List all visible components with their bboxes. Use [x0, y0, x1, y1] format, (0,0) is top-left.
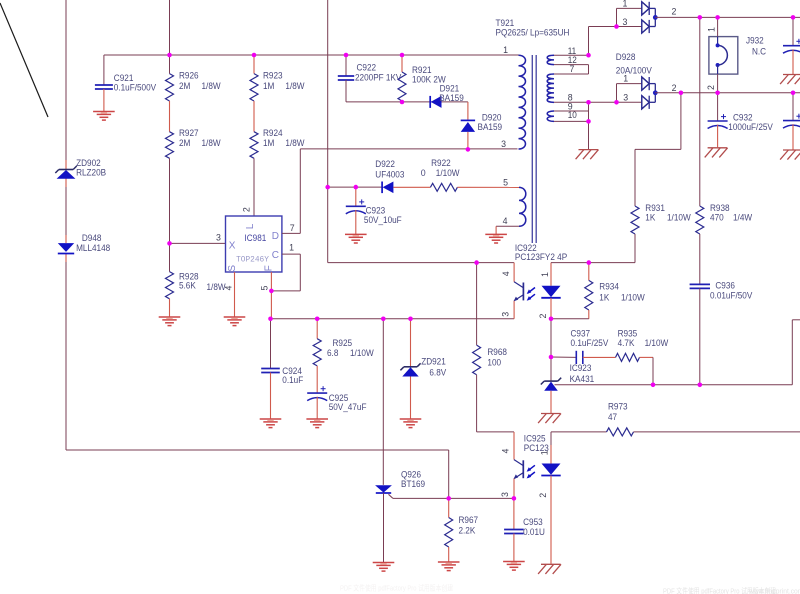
svg-text:BT169: BT169 — [401, 479, 425, 489]
svg-text:D922: D922 — [375, 159, 395, 169]
svg-text:R967: R967 — [459, 515, 479, 525]
svg-text:1: 1 — [540, 450, 550, 455]
svg-text:R927: R927 — [179, 128, 199, 138]
svg-text:1/10W: 1/10W — [645, 338, 669, 348]
svg-text:R921: R921 — [412, 65, 432, 75]
svg-text:3: 3 — [216, 233, 221, 243]
svg-text:PDF 文件使用 pdfFactory Pro 试用版本创建: PDF 文件使用 pdfFactory Pro 试用版本创建 — [340, 584, 453, 593]
svg-text:S: S — [227, 265, 238, 272]
svg-text:R926: R926 — [179, 71, 199, 81]
svg-text:D928: D928 — [616, 52, 636, 62]
svg-text:PC123FY2 4P: PC123FY2 4P — [515, 252, 567, 262]
svg-text:R925: R925 — [333, 338, 353, 348]
svg-text:TOP246Y: TOP246Y — [236, 254, 269, 264]
svg-text:2200PF 1KV: 2200PF 1KV — [355, 73, 402, 83]
svg-text:1: 1 — [503, 45, 508, 55]
svg-text:N.C: N.C — [752, 47, 767, 57]
svg-text:7: 7 — [570, 64, 575, 74]
svg-text:UF4003: UF4003 — [375, 169, 404, 179]
svg-text:4: 4 — [503, 216, 508, 226]
svg-text:100: 100 — [487, 358, 501, 368]
svg-text:2: 2 — [242, 207, 252, 212]
svg-text:1/8W: 1/8W — [285, 81, 305, 91]
svg-text:4: 4 — [501, 271, 511, 276]
svg-text:5: 5 — [503, 177, 508, 187]
svg-text:2: 2 — [706, 85, 716, 90]
svg-text:KA431: KA431 — [570, 374, 595, 384]
svg-text:1M: 1M — [263, 81, 274, 91]
svg-text:7: 7 — [290, 223, 295, 233]
svg-text:1K: 1K — [599, 292, 609, 302]
svg-text:20A/100V: 20A/100V — [616, 65, 652, 75]
svg-text:X: X — [229, 240, 236, 251]
svg-text:3: 3 — [501, 312, 511, 317]
svg-text:470: 470 — [710, 213, 724, 223]
svg-text:D: D — [272, 231, 279, 242]
svg-text:0: 0 — [421, 168, 426, 178]
svg-text:PQ2625/ Lp=635UH: PQ2625/ Lp=635UH — [496, 28, 570, 38]
svg-text:1/8W: 1/8W — [202, 138, 222, 148]
svg-text:R973: R973 — [608, 402, 628, 412]
svg-text:1/8W: 1/8W — [285, 138, 305, 148]
svg-text:BA159: BA159 — [439, 93, 464, 103]
svg-text:L: L — [245, 223, 256, 229]
svg-text:1: 1 — [623, 74, 628, 84]
svg-text:BA159: BA159 — [478, 122, 503, 132]
svg-text:F: F — [263, 265, 274, 271]
svg-text:ZD921: ZD921 — [421, 356, 446, 366]
svg-text:2.2K: 2.2K — [459, 525, 476, 535]
svg-text:3: 3 — [500, 492, 510, 497]
svg-text:C923: C923 — [366, 206, 386, 216]
svg-text:50V_10uF: 50V_10uF — [364, 215, 402, 225]
svg-text:1K: 1K — [645, 213, 655, 223]
svg-text:R938: R938 — [710, 203, 730, 213]
svg-text:3: 3 — [623, 17, 628, 27]
svg-text:5: 5 — [260, 285, 270, 290]
svg-text:3: 3 — [623, 93, 628, 103]
svg-text:RLZ20B: RLZ20B — [76, 168, 106, 178]
svg-text:C: C — [272, 250, 279, 261]
svg-text:1: 1 — [289, 242, 294, 252]
svg-text:1/10W: 1/10W — [621, 292, 645, 302]
svg-text:6.8: 6.8 — [327, 348, 338, 358]
svg-text:0.1uF/25V: 0.1uF/25V — [571, 338, 609, 348]
svg-text:4.7K: 4.7K — [618, 338, 635, 348]
svg-text:C921: C921 — [114, 73, 134, 83]
svg-text:D948: D948 — [82, 233, 102, 243]
svg-text:4: 4 — [223, 285, 233, 290]
svg-text:R923: R923 — [263, 71, 283, 81]
svg-text:2M: 2M — [179, 138, 190, 148]
svg-text:47: 47 — [608, 412, 617, 422]
svg-text:C936: C936 — [715, 281, 735, 291]
svg-text:2M: 2M — [179, 81, 190, 91]
svg-text:2: 2 — [672, 83, 677, 93]
svg-text:3: 3 — [501, 139, 506, 149]
svg-text:1/10W: 1/10W — [436, 168, 460, 178]
svg-text:MLL4148: MLL4148 — [76, 243, 110, 253]
svg-text:R968: R968 — [487, 347, 507, 357]
svg-text:1/10W: 1/10W — [350, 348, 374, 358]
svg-text:T921: T921 — [496, 18, 515, 28]
svg-text:IC981: IC981 — [245, 233, 267, 243]
svg-text:0.01uF/50V: 0.01uF/50V — [710, 291, 752, 301]
svg-text:1: 1 — [623, 0, 628, 9]
svg-text:1: 1 — [707, 27, 717, 32]
svg-text:R922: R922 — [431, 158, 451, 168]
svg-text:R931: R931 — [645, 203, 665, 213]
svg-text:2: 2 — [538, 493, 548, 498]
svg-text:R924: R924 — [263, 128, 283, 138]
svg-text:R934: R934 — [599, 282, 619, 292]
svg-text:1/8W: 1/8W — [202, 81, 222, 91]
svg-text:IC923: IC923 — [570, 363, 592, 373]
svg-text:J932: J932 — [746, 36, 764, 46]
svg-text:0.1uF: 0.1uF — [282, 375, 303, 385]
svg-text:0.01U: 0.01U — [523, 527, 545, 537]
svg-text:C922: C922 — [357, 63, 377, 73]
svg-text:2: 2 — [538, 313, 548, 318]
svg-text:1M: 1M — [263, 138, 274, 148]
svg-text:1/4W: 1/4W — [733, 213, 753, 223]
svg-text:1/10W: 1/10W — [667, 213, 691, 223]
svg-text:1: 1 — [540, 272, 550, 277]
svg-text:5.6K: 5.6K — [179, 281, 196, 291]
svg-text:D920: D920 — [482, 112, 502, 122]
svg-text:1000uF/25V: 1000uF/25V — [728, 122, 773, 132]
svg-text:50V_47uF: 50V_47uF — [329, 402, 367, 412]
svg-text:6.8V: 6.8V — [429, 367, 446, 377]
svg-text:ZD902: ZD902 — [76, 158, 101, 168]
svg-text:4: 4 — [500, 448, 510, 453]
svg-text:0.1uF/500V: 0.1uF/500V — [114, 83, 156, 93]
svg-text:www.fineprint.com.cn: www.fineprint.com.cn — [748, 587, 800, 594]
svg-text:2: 2 — [672, 7, 677, 17]
svg-text:C953: C953 — [523, 517, 543, 527]
